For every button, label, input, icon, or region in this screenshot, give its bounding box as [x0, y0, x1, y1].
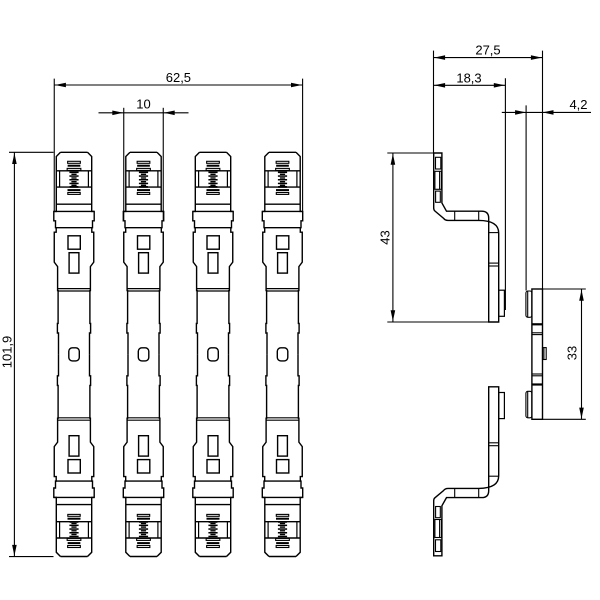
DIN-rail clip upper (side view): [434, 153, 505, 322]
dimension 62,5 overall width: [54, 70, 302, 211]
svg-text:27,5: 27,5: [475, 43, 500, 58]
dimension line: [99, 112, 189, 114]
svg-text:101,9: 101,9: [0, 336, 15, 369]
arrowheads: [515, 110, 526, 115]
arrowheads: [12, 153, 17, 164]
extension line bottom: [9, 556, 54, 558]
extension line left: [123, 108, 125, 221]
busbar pin 2 (front view): [123, 152, 163, 556]
upper contact pad: [526, 291, 532, 317]
busbar strip (side view): [526, 289, 546, 419]
clip bent strip outline: [434, 387, 499, 556]
busbar pin 3 (front view): [193, 152, 233, 556]
dimension line: [434, 57, 543, 59]
arrowheads: [55, 83, 66, 88]
dimension line: [434, 84, 506, 86]
dimension line: [581, 289, 583, 419]
strip body: [532, 289, 543, 419]
bend tangent ticks: [454, 211, 456, 220]
dimension 43 clip height: [377, 153, 488, 322]
side lug: [543, 348, 547, 360]
arrowheads: [112, 111, 123, 116]
svg-text:33: 33: [565, 346, 580, 360]
svg-text:10: 10: [136, 97, 150, 112]
extension line left: [433, 51, 435, 153]
svg-text:62,5: 62,5: [166, 70, 191, 85]
extension line right: [504, 78, 506, 310]
lower contact pad: [526, 391, 532, 418]
contact pad: [499, 290, 505, 316]
extension line left: [53, 79, 55, 211]
extension line left: [525, 105, 527, 290]
strip joint double line: [489, 262, 499, 264]
dimension line: [502, 111, 591, 113]
arrowheads: [434, 55, 445, 60]
dimension 10 pin width: [99, 97, 189, 221]
dimension 27,5 overall depth: [434, 43, 543, 289]
dimension 4,2 busbar thickness: [502, 97, 591, 291]
crimp bands: [532, 323, 543, 325]
extension line right: [302, 79, 304, 211]
DIN-rail clip lower (side view, mirrored): [434, 387, 505, 556]
extension line bottom: [543, 418, 586, 420]
bend tangent ticks: [454, 488, 456, 497]
svg-text:43: 43: [377, 230, 392, 244]
joint double lines: [532, 332, 543, 334]
rail hook contact rects: [436, 540, 441, 552]
dimension line: [392, 153, 394, 322]
strip joint double line: [489, 445, 499, 447]
dimension 18,3 clip depth: [434, 70, 506, 310]
arrowheads: [391, 154, 396, 165]
extension line top: [387, 152, 433, 154]
svg-text:18,3: 18,3: [456, 70, 481, 85]
clip bent strip outline: [434, 153, 499, 322]
extension line right: [542, 51, 544, 289]
arrowheads: [434, 83, 445, 88]
extension line top: [543, 288, 586, 290]
contact pad: [499, 392, 505, 418]
svg-text:4,2: 4,2: [569, 97, 587, 112]
busbar pin 4 (front view): [262, 152, 302, 556]
extension line top: [9, 151, 54, 153]
extension line right: [162, 108, 164, 221]
dimension 101,9 overall height: [0, 152, 54, 556]
extension line bottom: [387, 321, 488, 323]
dimension 33 busbar height: [543, 289, 586, 419]
arrowheads: [579, 290, 584, 301]
rail hook contact rects: [436, 157, 441, 169]
dimension line: [13, 152, 15, 556]
busbar pin 1 (front view): [54, 152, 94, 556]
dimension line: [54, 84, 302, 86]
